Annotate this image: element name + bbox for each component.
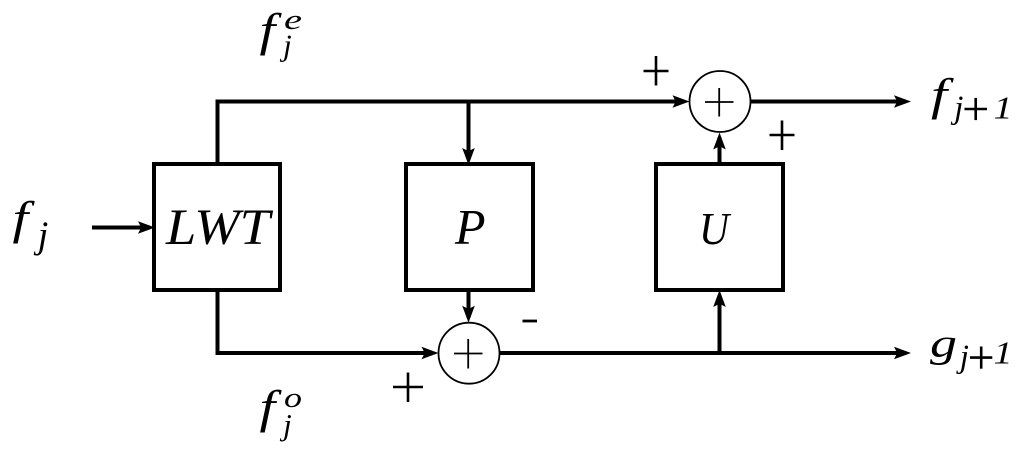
wire input arrow into LWT xyxy=(92,221,155,234)
svg-text:LWT: LWT xyxy=(165,200,274,256)
node f_j+1 output label xyxy=(931,70,1013,126)
summing junction S2 (bottom) xyxy=(439,323,500,384)
wire branch down into P xyxy=(462,102,475,166)
block P xyxy=(406,164,533,290)
svg-text:f: f xyxy=(931,70,954,120)
svg-text:j: j xyxy=(956,339,969,375)
plus sign below-right of top summer xyxy=(770,121,795,151)
plus sign below-left of bottom summer xyxy=(393,373,423,403)
plus sign above-left of top summer xyxy=(644,56,669,86)
wire odd branch: LWT bottom down and right to bottom summer xyxy=(218,290,439,359)
svg-text:g: g xyxy=(930,320,957,365)
svg-text:f: f xyxy=(260,382,283,434)
svg-text:1: 1 xyxy=(994,335,1013,371)
wire U up into top summer xyxy=(713,133,726,165)
svg-text:j: j xyxy=(279,27,292,62)
block LWT xyxy=(154,164,280,290)
node f_j^o label xyxy=(260,382,303,442)
svg-text:f: f xyxy=(260,5,283,57)
wire P down into bottom summer xyxy=(462,290,475,323)
wire branch up into U xyxy=(713,290,726,353)
summing junction S1 (top) xyxy=(690,71,751,132)
svg-text:P: P xyxy=(454,199,486,255)
node g_j+1 output label xyxy=(930,320,1013,375)
wire even branch: LWT top up and right to top summer xyxy=(218,95,690,164)
wire top summer out to f_j+1 xyxy=(751,95,912,108)
svg-text:j: j xyxy=(950,90,963,126)
minus sign above-right of bottom summer xyxy=(523,320,538,323)
wire bottom summer out to g_j+1 xyxy=(500,347,912,360)
svg-text:f: f xyxy=(13,193,36,245)
node f_j input label xyxy=(13,193,49,257)
block U xyxy=(656,164,783,290)
svg-text:1: 1 xyxy=(994,90,1013,126)
node f_j^e label xyxy=(260,5,303,63)
svg-text:j: j xyxy=(279,407,292,442)
svg-text:j: j xyxy=(33,214,49,256)
svg-text:U: U xyxy=(699,203,731,254)
